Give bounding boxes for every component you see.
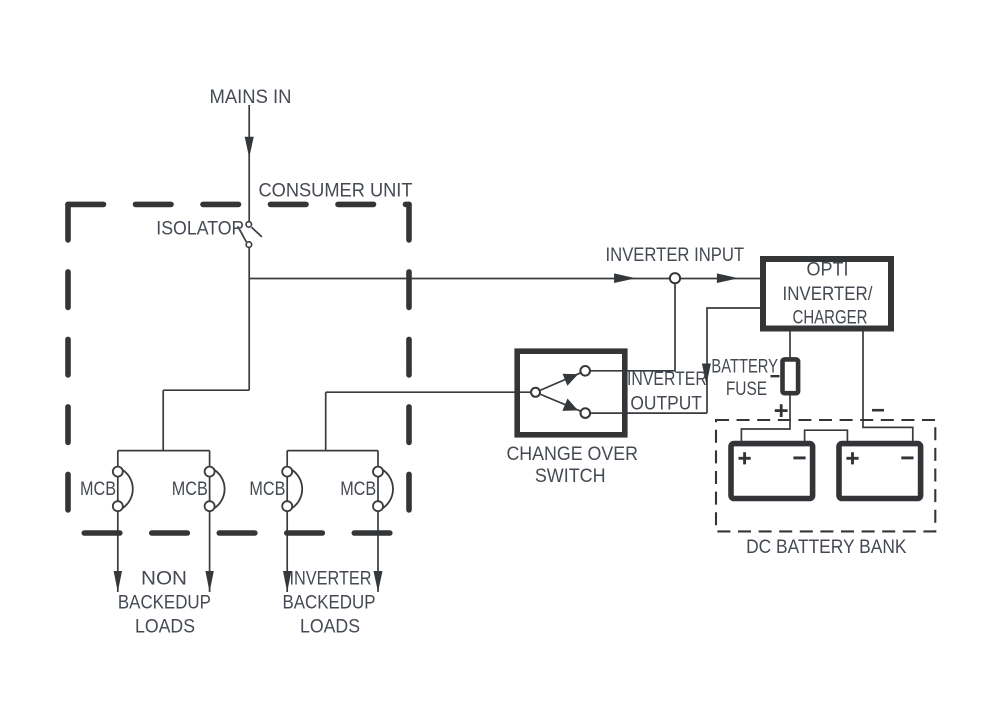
wire junction down [248,279,250,391]
polarity minus label at battery2 wire [872,409,884,412]
changeover bottom contact [581,408,591,418]
svg-text:OPTI: OPTI [807,258,849,280]
MCB1 [113,467,133,512]
wire MCB2 drop [209,451,211,592]
arrowhead load3 [283,571,291,592]
svg-text:MCB: MCB [249,478,285,500]
arrowhead mains in [245,137,254,158]
battery BT1 plus terminal [739,452,751,464]
wire left to group1 feed [163,389,249,391]
node inverter input junction [670,273,680,283]
wire isolator-to-junction [248,248,250,279]
wire OPTI to battery2 minus [863,332,913,443]
fuse label tick [771,375,780,377]
svg-text:LOADS: LOADS [300,616,360,638]
wire MCB4 drop [377,451,379,592]
arrowhead load1 [114,571,122,592]
svg-text:CONSUMER UNIT: CONSUMER UNIT [259,179,413,201]
battery BT1 minus terminal [793,456,805,459]
wire OPTI to fuse [789,332,791,359]
wire main horizontal to inverter [249,278,760,280]
wire fuse to battery1 [741,395,790,442]
svg-text:INVERTER INPUT: INVERTER INPUT [606,244,745,266]
battery BT2 minus terminal [901,456,913,459]
wire group1 feed down [162,390,164,450]
svg-text:NON: NON [141,568,187,590]
battery fuse F1 [783,359,799,393]
wire inverter output from OPTI [707,308,760,413]
wire MCB3 drop [286,451,288,592]
changeover blade top [540,373,581,391]
svg-text:DC BATTERY BANK: DC BATTERY BANK [746,536,906,558]
MCB4 [373,467,393,512]
svg-text:MCB: MCB [80,478,116,500]
svg-text:MAINS IN: MAINS IN [210,86,292,108]
wire group1 tee [118,450,210,452]
changeover blade bottom [540,394,581,411]
changeover switch box [517,351,625,435]
svg-text:BACKEDUP: BACKEDUP [283,592,376,614]
wire group2 feed down [325,392,327,450]
svg-text:INVERTER/: INVERTER/ [783,283,873,305]
svg-text:CHANGE OVER: CHANGE OVER [506,443,638,465]
svg-text:LOADS: LOADS [135,616,195,638]
arrowhead main wire left [614,273,636,283]
battery BT2 plus terminal [846,452,858,464]
svg-text:MCB: MCB [172,478,208,500]
svg-text:INVERTER: INVERTER [290,568,372,590]
arrowhead inverter output down [702,364,711,385]
consumer unit dashed box [68,204,409,533]
svg-text:BATTERY: BATTERY [711,356,778,378]
wire changeover bottom contact to riser [590,412,707,414]
wire MCB1 drop [117,451,119,592]
svg-text:MCB: MCB [340,478,376,500]
OPTI inverter/charger box U1 [763,259,891,329]
battery bank dashed box [716,420,935,531]
battery BT1 [731,444,813,499]
svg-text:INVERTER: INVERTER [627,368,707,390]
arrowhead main wire right [717,273,739,283]
svg-text:ISOLATOR: ISOLATOR [156,218,244,240]
wire node to changeover top contact [590,283,675,371]
polarity plus label at fuse wire [775,404,788,417]
arrowhead load2 [205,571,213,592]
MCB2 [205,467,225,512]
wire mains-in vertical [248,105,250,221]
wire group2 tee [287,450,378,452]
changeover common pole [531,388,540,397]
svg-text:BACKEDUP: BACKEDUP [118,592,211,614]
svg-text:CHARGER: CHARGER [793,306,868,328]
arrowhead load4 [374,571,383,592]
svg-text:FUSE: FUSE [726,378,767,400]
wire battery interconnect [805,430,848,442]
changeover top contact [580,366,590,376]
svg-text:OUTPUT: OUTPUT [630,393,702,415]
wire changeover common feed [326,391,532,393]
MCB3 [282,467,302,512]
svg-text:SWITCH: SWITCH [535,465,606,487]
isolator switch SW1 [238,222,262,248]
battery BT2 [839,444,921,499]
